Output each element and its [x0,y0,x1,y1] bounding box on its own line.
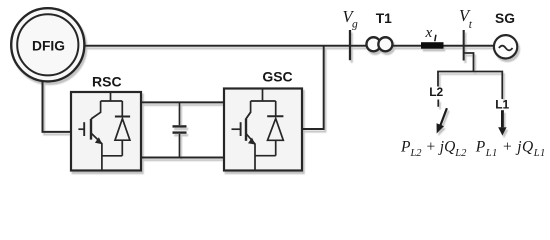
svg-text:x: x [425,25,433,41]
wire DC link bottom [141,157,224,159]
transistor Q1 gate lead [78,128,84,130]
IGBT cell in RSC: top rail and stub [78,92,130,171]
transistor Q2 emitter lead [246,134,255,171]
transistor Q1 emitter lead [91,133,102,171]
transistor Q1 gate bar [83,122,85,136]
diode D1 cathode lead [121,101,123,117]
converter RSC box [71,92,141,171]
svg-text:PL2 + jQL2: PL2 + jQL2 [400,138,467,159]
IGBT cell in GSC: bottom rail [255,155,276,157]
svg-text:T1: T1 [376,11,392,26]
transistor Q2 gate lead [232,128,241,130]
diode D2 triangle [268,119,284,141]
transistor Q2 gate bar [240,122,242,136]
transformer T1 circles [366,37,380,51]
svg-text:L2: L2 [429,85,443,99]
transistor Q2 collector lead [246,101,251,119]
diode D2 cathode bar [267,115,283,117]
wire load splitter [438,72,502,100]
wire DC link top [141,101,224,103]
capacitor C dc-link [173,102,187,157]
transistor Q1 collector lead [91,101,101,119]
svg-text:SG: SG [495,11,515,26]
svg-text:PL1 + jQL1: PL1 + jQL1 [475,138,546,159]
IGBT cell in GSC: top rail and stub [232,89,284,171]
wire stator: DFIG to grid bus [84,45,494,47]
diode D1 triangle [115,119,130,141]
generator DFIG [11,8,84,81]
load L2 arrow (slanted) [437,108,447,132]
wire GSC to grid riser [302,46,324,129]
SG sine symbol [499,46,513,51]
wire dash above L2 arrow [437,100,439,107]
generator SG circle [494,35,517,58]
svg-text:GSC: GSC [262,68,292,84]
load L1 arrow (vertical) [498,110,506,135]
bus Vt bar [463,30,465,61]
diode D2 cathode lead [275,101,277,116]
converter GSC box [224,89,302,171]
transistor Q2 body bar [245,119,247,141]
reactance xl block [421,42,444,49]
svg-text:g: g [352,19,358,31]
transistor Q1 body bar [90,119,92,140]
transistor Q2 emitter arrowhead [248,138,255,145]
wire rotor: DFIG bottom down and right to RSC [43,78,72,132]
transistor Q1 emitter arrowhead [95,137,102,144]
svg-text:RSC: RSC [92,73,122,89]
svg-text:DFIG: DFIG [32,38,65,53]
svg-text:t: t [469,19,473,31]
diode D2 anode lead [275,140,277,155]
diode D1 anode lead [121,140,123,156]
wire feeder from Vt bus to load splitter [464,53,474,72]
diode D1 cathode bar [115,116,130,118]
svg-text:L1: L1 [495,98,509,112]
bus Vg bar [349,30,351,60]
IGBT cell in RSC: bottom rail [102,155,122,157]
